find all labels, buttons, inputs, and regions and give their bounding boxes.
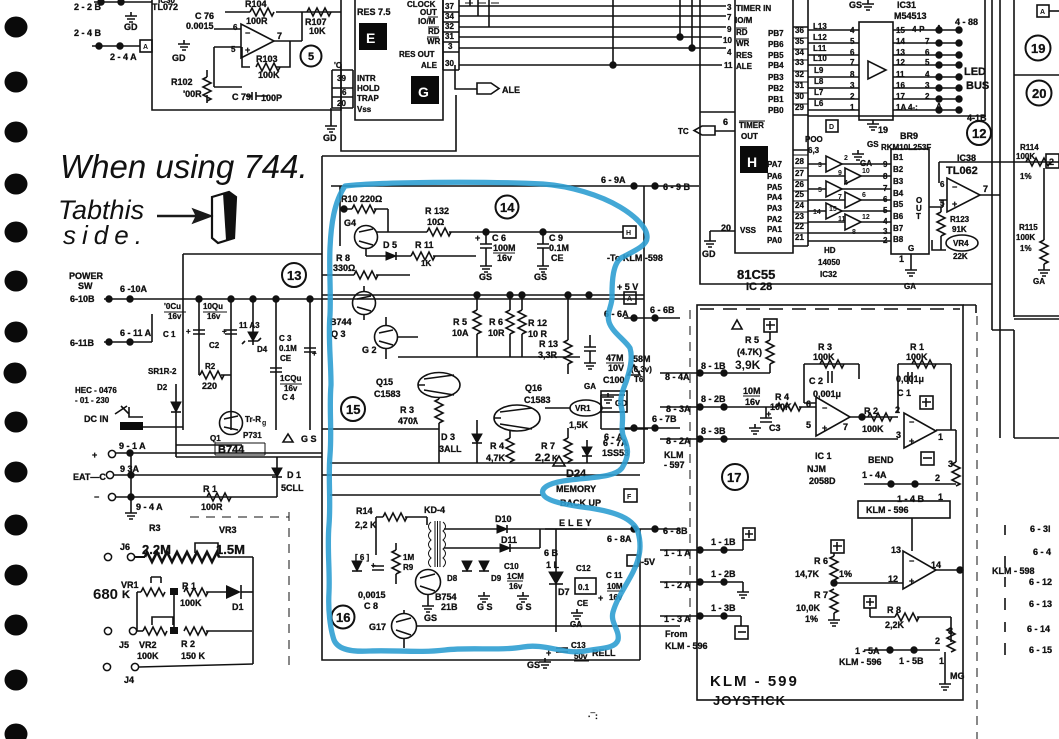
- svg-text:+ 5 V: + 5 V: [617, 282, 638, 292]
- svg-text:Vss: Vss: [357, 105, 372, 114]
- svg-text:9 - 1 A: 9 - 1 A: [119, 441, 146, 451]
- svg-text:100R: 100R: [201, 502, 223, 512]
- svg-text:MEMORY: MEMORY: [556, 484, 596, 494]
- svg-text:A: A: [627, 296, 632, 303]
- svg-text:RD: RD: [428, 27, 440, 36]
- svg-text:6-10B: 6-10B: [70, 294, 95, 304]
- svg-text:R 11: R 11: [415, 240, 434, 250]
- svg-text:100K: 100K: [813, 352, 835, 362]
- svg-text:6,3: 6,3: [808, 146, 820, 155]
- svg-text:0,0015: 0,0015: [358, 590, 386, 600]
- svg-text:PA2: PA2: [767, 215, 783, 224]
- svg-text:1 - 1B: 1 - 1B: [711, 537, 736, 547]
- svg-text:6-11B: 6-11B: [70, 338, 95, 348]
- svg-text:GD: GD: [323, 133, 337, 143]
- svg-text:From: From: [665, 629, 688, 639]
- svg-text:B744: B744: [330, 317, 352, 327]
- svg-text:EAT—C: EAT—C: [73, 472, 106, 482]
- svg-text:22K: 22K: [953, 252, 968, 261]
- svg-text:M54513: M54513: [894, 11, 927, 21]
- svg-text:330Ω: 330Ω: [333, 263, 355, 273]
- svg-text:B7: B7: [893, 224, 904, 233]
- svg-text:GS: GS: [849, 0, 862, 10]
- svg-text:6 - 9 B: 6 - 9 B: [663, 182, 691, 192]
- svg-text:B754: B754: [435, 592, 457, 602]
- svg-text:ELEY: ELEY: [559, 518, 595, 528]
- svg-text:B2: B2: [893, 165, 904, 174]
- svg-text:R2: R2: [205, 362, 216, 371]
- svg-text:3,9K: 3,9K: [735, 358, 761, 372]
- svg-text:3: 3: [818, 162, 822, 169]
- svg-text:6 - 9A: 6 - 9A: [601, 175, 626, 185]
- svg-text:'00R: '00R: [183, 89, 202, 99]
- svg-text:31: 31: [445, 32, 454, 41]
- svg-text:L6: L6: [814, 99, 824, 108]
- svg-text:4 - 88: 4 - 88: [955, 17, 978, 27]
- svg-text:IC31: IC31: [897, 0, 916, 10]
- svg-text:6 - 6B: 6 - 6B: [650, 305, 675, 315]
- svg-text:13: 13: [287, 268, 301, 283]
- svg-text:IC 1: IC 1: [815, 451, 832, 461]
- svg-text:470ƛ: 470ƛ: [398, 416, 418, 426]
- svg-text:8 - 2B: 8 - 2B: [701, 394, 726, 404]
- svg-text:26: 26: [795, 180, 804, 189]
- svg-text:D 5: D 5: [383, 240, 397, 250]
- svg-text:R 8: R 8: [887, 605, 901, 615]
- svg-text:680: 680: [93, 586, 118, 603]
- svg-text:1 - 4A: 1 - 4A: [862, 470, 887, 480]
- svg-text:TIMER IN: TIMER IN: [736, 4, 771, 13]
- svg-text:1 - 5B: 1 - 5B: [899, 656, 924, 666]
- svg-text:10,0K: 10,0K: [796, 603, 821, 613]
- svg-text:6 - 7B: 6 - 7B: [652, 414, 677, 424]
- svg-text:RD: RD: [736, 28, 748, 37]
- svg-text:GA: GA: [570, 620, 582, 629]
- svg-text:1K: 1K: [421, 259, 431, 268]
- svg-text:R 1: R 1: [910, 342, 924, 352]
- svg-text:GA: GA: [904, 282, 916, 291]
- svg-text:L12: L12: [813, 33, 827, 42]
- svg-text:R 1: R 1: [203, 484, 217, 494]
- svg-text:KLM: KLM: [664, 450, 684, 460]
- svg-text:6 -10A: 6 -10A: [120, 284, 148, 294]
- svg-text:10M: 10M: [743, 386, 761, 396]
- svg-text:+: +: [952, 199, 957, 209]
- svg-text:D7: D7: [558, 587, 570, 597]
- svg-text:PA6: PA6: [767, 172, 783, 181]
- svg-text:G: G: [418, 84, 429, 100]
- svg-text:R 7: R 7: [814, 590, 828, 600]
- svg-text:+: +: [822, 423, 827, 433]
- svg-text:21B: 21B: [441, 602, 458, 612]
- svg-text:8 - 2A: 8 - 2A: [666, 436, 691, 446]
- svg-text:6: 6: [233, 23, 238, 32]
- svg-text:150 K: 150 K: [181, 651, 206, 661]
- svg-text:2: 2: [1049, 157, 1054, 167]
- svg-text:When using 744.: When using 744.: [60, 148, 308, 185]
- svg-text:R123: R123: [950, 215, 970, 224]
- svg-text:R104: R104: [245, 0, 267, 9]
- svg-text:1%: 1%: [805, 614, 818, 624]
- svg-text:PB3: PB3: [768, 73, 784, 82]
- svg-text:33: 33: [795, 58, 804, 67]
- svg-text:6 - 11 A: 6 - 11 A: [120, 328, 152, 338]
- svg-text:1 - 4 B: 1 - 4 B: [897, 494, 925, 504]
- svg-text:91K: 91K: [952, 225, 967, 234]
- svg-text:R102: R102: [171, 77, 193, 87]
- svg-text:PA4: PA4: [767, 193, 783, 202]
- svg-text:7: 7: [843, 422, 848, 432]
- svg-text:R 3: R 3: [400, 405, 414, 415]
- svg-text:7: 7: [925, 37, 930, 46]
- svg-text:1 - 2B: 1 - 2B: [711, 569, 736, 579]
- svg-text:KLM - 596: KLM - 596: [839, 657, 882, 667]
- svg-text:16v: 16v: [509, 582, 523, 591]
- svg-text:16v: 16v: [745, 397, 760, 407]
- svg-text:PB1: PB1: [768, 95, 784, 104]
- svg-text:G S: G S: [477, 602, 493, 612]
- svg-text:GS: GS: [867, 140, 879, 149]
- svg-text:100K: 100K: [137, 651, 159, 661]
- svg-text:C1583: C1583: [374, 389, 401, 399]
- svg-text:6: 6: [940, 180, 945, 189]
- svg-text:R 5: R 5: [745, 335, 759, 345]
- svg-text:PA5: PA5: [767, 183, 783, 192]
- svg-text:R114: R114: [1020, 143, 1039, 152]
- svg-text:KLM - 596: KLM - 596: [665, 641, 708, 651]
- svg-text:IO/M: IO/M: [735, 16, 753, 25]
- svg-text:1CM: 1CM: [507, 572, 524, 581]
- svg-text:30: 30: [445, 59, 454, 68]
- svg-text:DC IN: DC IN: [84, 414, 109, 424]
- svg-text:R 13: R 13: [539, 339, 558, 349]
- svg-text:A: A: [1040, 9, 1045, 16]
- svg-text:27: 27: [795, 169, 804, 178]
- svg-text:HEC - 0476: HEC - 0476: [75, 386, 117, 395]
- svg-text:C12: C12: [576, 564, 591, 573]
- svg-text:3: 3: [727, 3, 732, 12]
- svg-text:14050: 14050: [818, 258, 841, 267]
- svg-text:WR: WR: [427, 37, 441, 46]
- svg-text:·¯:: ·¯:: [588, 712, 598, 721]
- svg-text:−: −: [909, 417, 914, 427]
- svg-text:C 1: C 1: [163, 330, 176, 339]
- svg-text:6: 6: [342, 88, 347, 97]
- svg-text:J4: J4: [124, 675, 134, 685]
- svg-text:8 - 3B: 8 - 3B: [701, 426, 726, 436]
- svg-text:1%: 1%: [1020, 172, 1032, 181]
- svg-text:TRAP: TRAP: [357, 94, 379, 103]
- svg-text:0.0015: 0.0015: [186, 21, 214, 31]
- svg-text:100M: 100M: [493, 243, 516, 253]
- svg-text:+: +: [245, 45, 250, 55]
- svg-text:TC: TC: [678, 127, 689, 136]
- svg-text:10Qu: 10Qu: [203, 302, 223, 311]
- svg-text:MG: MG: [950, 671, 965, 681]
- svg-text:5: 5: [806, 420, 811, 430]
- svg-text:10R: 10R: [488, 328, 505, 338]
- svg-text:7: 7: [883, 184, 888, 193]
- svg-text:B3: B3: [893, 177, 904, 186]
- svg-text:100K: 100K: [1016, 233, 1035, 242]
- svg-text:1CQu: 1CQu: [280, 374, 301, 383]
- svg-text:37: 37: [445, 2, 454, 11]
- svg-text:6 - 8A: 6 - 8A: [607, 534, 632, 544]
- svg-text:6 - 12: 6 - 12: [1029, 577, 1052, 587]
- svg-text:POO: POO: [805, 135, 823, 144]
- svg-text:11 A3: 11 A3: [239, 321, 260, 330]
- svg-text:36: 36: [795, 26, 804, 35]
- svg-text:PA0: PA0: [767, 236, 783, 245]
- svg-text:1%: 1%: [839, 569, 852, 579]
- svg-text:14: 14: [500, 200, 515, 215]
- svg-text:HD: HD: [824, 246, 836, 255]
- svg-text:R 6: R 6: [489, 317, 503, 327]
- svg-text:D: D: [829, 124, 834, 131]
- svg-text:E: E: [366, 30, 375, 46]
- svg-text:PA3: PA3: [767, 204, 783, 213]
- svg-text:+: +: [598, 593, 603, 603]
- svg-text:C 4: C 4: [282, 393, 295, 402]
- svg-text:F: F: [627, 494, 632, 501]
- svg-text:R 132: R 132: [425, 206, 449, 216]
- svg-text:VR1: VR1: [575, 404, 591, 413]
- svg-text:20: 20: [337, 99, 346, 108]
- svg-text:4: 4: [844, 180, 848, 187]
- svg-text:H: H: [747, 154, 757, 170]
- svg-text:D1: D1: [232, 602, 244, 612]
- svg-text:28: 28: [795, 157, 804, 166]
- svg-text:20: 20: [1032, 86, 1046, 101]
- svg-text:1M: 1M: [403, 553, 414, 562]
- svg-text:19: 19: [1031, 41, 1045, 56]
- svg-text:15: 15: [346, 402, 360, 417]
- svg-text:B5: B5: [893, 200, 904, 209]
- svg-text:C 79: C 79: [232, 92, 251, 102]
- svg-text:16v: 16v: [497, 253, 512, 263]
- svg-text:3: 3: [883, 227, 888, 236]
- svg-text:32: 32: [445, 22, 454, 31]
- svg-text:C1583: C1583: [524, 395, 551, 405]
- svg-text:R 4: R 4: [490, 441, 504, 451]
- svg-text:24: 24: [795, 201, 804, 210]
- svg-text:G4: G4: [344, 218, 356, 228]
- svg-text:16v: 16v: [207, 312, 221, 321]
- svg-text:R 7: R 7: [541, 441, 555, 451]
- svg-text:6: 6: [723, 117, 728, 127]
- svg-text:1 - 5A: 1 - 5A: [855, 646, 880, 656]
- svg-text:Q16: Q16: [525, 383, 542, 393]
- svg-text:J5: J5: [119, 640, 129, 650]
- svg-text:3,3R: 3,3R: [538, 350, 558, 360]
- svg-text:9 - 4 A: 9 - 4 A: [136, 502, 163, 512]
- svg-text:−: −: [909, 556, 914, 566]
- svg-text:C 9: C 9: [549, 233, 563, 243]
- svg-text:L11: L11: [813, 44, 827, 53]
- svg-text:P731: P731: [243, 431, 262, 440]
- svg-text:IC30: IC30: [158, 0, 175, 5]
- svg-text:8 - 1B: 8 - 1B: [701, 361, 726, 371]
- svg-text:KD-4: KD-4: [424, 505, 445, 515]
- svg-text:R 3: R 3: [818, 342, 832, 352]
- svg-text:L9: L9: [814, 66, 824, 75]
- svg-text:PA7: PA7: [767, 160, 783, 169]
- svg-text:5CLL: 5CLL: [281, 483, 304, 493]
- svg-text:0.1M: 0.1M: [279, 344, 297, 353]
- svg-text:2,2 K: 2,2 K: [355, 520, 377, 530]
- svg-text:+: +: [92, 450, 97, 460]
- svg-text:2 - 4 B: 2 - 4 B: [74, 28, 102, 38]
- svg-text:1.5M: 1.5M: [216, 542, 245, 557]
- svg-text:−: −: [952, 182, 957, 192]
- svg-text:B8: B8: [893, 235, 904, 244]
- svg-text:D8: D8: [447, 574, 458, 583]
- svg-text:RKM10L253F: RKM10L253F: [881, 143, 931, 152]
- svg-text:BR9: BR9: [900, 131, 918, 141]
- svg-text:1: 1: [899, 254, 904, 264]
- svg-text:8: 8: [883, 172, 888, 181]
- svg-text:−: −: [94, 492, 99, 502]
- svg-text:2: 2: [935, 636, 940, 646]
- svg-text:7: 7: [727, 13, 732, 22]
- svg-text:+: +: [312, 349, 317, 358]
- svg-text:R 2: R 2: [181, 639, 195, 649]
- svg-text:R 5: R 5: [453, 317, 467, 327]
- svg-text:15: 15: [829, 206, 837, 213]
- svg-text:6 - 15: 6 - 15: [1029, 645, 1052, 655]
- svg-text:NJM: NJM: [807, 464, 826, 474]
- svg-text:D2: D2: [157, 383, 168, 392]
- svg-text:ALE: ALE: [736, 62, 753, 71]
- svg-text:10K: 10K: [309, 26, 326, 36]
- svg-text:21: 21: [795, 233, 804, 242]
- svg-text:−: −: [245, 28, 250, 38]
- svg-text:WR: WR: [736, 39, 750, 48]
- svg-text:C 11: C 11: [606, 571, 623, 580]
- svg-text:100K: 100K: [258, 70, 280, 80]
- svg-text:5: 5: [818, 187, 822, 194]
- svg-text:B4: B4: [893, 189, 904, 198]
- svg-text:PB0: PB0: [768, 106, 784, 115]
- svg-text:7: 7: [277, 31, 282, 41]
- svg-text:9: 9: [727, 25, 732, 34]
- svg-text:A: A: [143, 44, 148, 51]
- svg-text:VR4: VR4: [953, 239, 969, 248]
- svg-text:1: 1: [938, 432, 943, 442]
- svg-text:L8: L8: [814, 77, 824, 86]
- svg-text:G17: G17: [369, 622, 386, 632]
- svg-text:2: 2: [935, 473, 940, 483]
- svg-text:KLM - 598: KLM - 598: [992, 566, 1035, 576]
- svg-text:GD: GD: [124, 22, 138, 32]
- svg-text:D10: D10: [495, 514, 512, 524]
- svg-text:TIMER: TIMER: [739, 121, 764, 130]
- svg-text:10V: 10V: [608, 363, 624, 373]
- svg-text:1 - 3B: 1 - 3B: [711, 603, 736, 613]
- svg-text:D11: D11: [501, 535, 517, 545]
- svg-text:10: 10: [862, 168, 870, 175]
- svg-text:G S: G S: [516, 602, 532, 612]
- svg-text:34: 34: [445, 12, 454, 21]
- svg-text:GA: GA: [1033, 277, 1045, 286]
- svg-text:PB6: PB6: [768, 40, 784, 49]
- svg-text:-5V: -5V: [641, 557, 655, 567]
- svg-text:0,001μ: 0,001μ: [896, 374, 924, 384]
- svg-text:C2: C2: [209, 341, 220, 350]
- svg-text:2058D: 2058D: [809, 476, 836, 486]
- svg-text:INTR: INTR: [357, 74, 376, 83]
- svg-text:VSS: VSS: [740, 226, 757, 235]
- svg-text:LED: LED: [964, 66, 986, 78]
- svg-text:H: H: [626, 230, 631, 237]
- svg-text:D 3: D 3: [441, 432, 455, 442]
- svg-text:GS: GS: [424, 613, 437, 623]
- svg-text:G 2: G 2: [362, 345, 377, 355]
- svg-text:G S: G S: [301, 434, 317, 444]
- svg-text:R 4: R 4: [775, 392, 789, 402]
- svg-text:T: T: [916, 212, 921, 221]
- svg-text:10Ω: 10Ω: [427, 217, 444, 227]
- svg-text:CE: CE: [577, 599, 589, 608]
- svg-text:R3: R3: [149, 523, 161, 533]
- svg-text:6: 6: [806, 399, 811, 409]
- svg-text:3: 3: [896, 430, 901, 440]
- svg-text:PB7: PB7: [768, 29, 784, 38]
- svg-text:D 1: D 1: [287, 470, 301, 480]
- svg-text:10A: 10A: [452, 328, 469, 338]
- svg-text:R115: R115: [1019, 223, 1038, 232]
- svg-text:ALE: ALE: [502, 85, 520, 95]
- svg-text:4: 4: [727, 48, 732, 57]
- svg-text:VR1: VR1: [121, 580, 139, 590]
- svg-text:side.: side.: [63, 220, 148, 250]
- svg-text:Tr-R: Tr-R: [245, 415, 261, 424]
- svg-text:6 - 13: 6 - 13: [1029, 599, 1052, 609]
- svg-text:3: 3: [448, 42, 453, 51]
- svg-text:CE: CE: [551, 253, 564, 263]
- svg-text:+: +: [909, 576, 914, 586]
- svg-text:JOYSTICK: JOYSTICK: [713, 693, 786, 708]
- svg-text:+: +: [909, 436, 914, 446]
- svg-text:2 - 4 A: 2 - 4 A: [110, 52, 137, 62]
- svg-text:39: 39: [337, 74, 346, 83]
- svg-text:R9: R9: [403, 563, 414, 572]
- svg-text:0.1M: 0.1M: [549, 243, 569, 253]
- svg-text:100K: 100K: [180, 598, 202, 608]
- svg-text:D4: D4: [257, 345, 268, 354]
- svg-text:100K: 100K: [1016, 152, 1035, 161]
- svg-text:BEND: BEND: [868, 455, 894, 465]
- svg-text:+: +: [475, 233, 480, 243]
- svg-text:R 12: R 12: [528, 318, 547, 328]
- svg-text:19: 19: [878, 125, 888, 135]
- svg-text:GS: GS: [527, 660, 540, 670]
- svg-text:IC 28: IC 28: [746, 281, 772, 293]
- svg-text:OUT: OUT: [420, 8, 437, 17]
- svg-text:8 - 3A: 8 - 3A: [666, 404, 691, 414]
- svg-text:4: 4: [883, 217, 888, 226]
- svg-text:47M: 47M: [606, 353, 624, 363]
- svg-text:VR3: VR3: [219, 525, 237, 535]
- svg-text:C3: C3: [769, 423, 781, 433]
- svg-text:1,5K: 1,5K: [569, 420, 589, 430]
- svg-text:6: 6: [862, 192, 866, 199]
- svg-text:C10: C10: [504, 562, 519, 571]
- svg-text:HOLD: HOLD: [357, 84, 380, 93]
- svg-text:6 - 8B: 6 - 8B: [663, 526, 688, 536]
- svg-text:2,2: 2,2: [535, 452, 550, 464]
- svg-text:g: g: [262, 420, 266, 427]
